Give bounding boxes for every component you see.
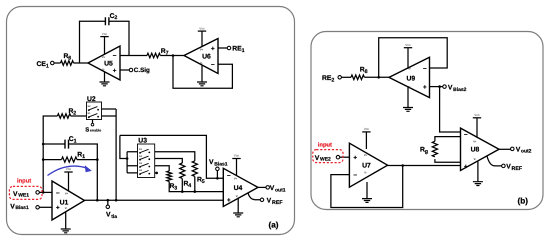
wire U9 plus to VBias2 terminal [430, 86, 443, 88]
svg-text:V+: V+ [234, 178, 238, 181]
svg-text:+: + [227, 197, 231, 204]
U9 ground [407, 87, 409, 108]
analog switch U3 [138, 144, 155, 178]
svg-text:U6: U6 [202, 54, 211, 61]
analog switch U2 [87, 102, 102, 120]
wire C2 right leg down to summing node [109, 21, 129, 55]
svg-text:V: V [267, 198, 272, 205]
svg-text:g: g [425, 149, 428, 155]
op-amp U9 (mirrored, output left) [389, 57, 430, 97]
wire summing node into U5 minus input [120, 55, 129, 57]
svg-text:WE1: WE1 [18, 193, 29, 199]
wire VBias2 node down to U8 minus [440, 87, 461, 132]
resistor R1 [62, 157, 77, 162]
resistor Rg [432, 141, 437, 157]
wire summing node to R7 [129, 55, 147, 57]
wire R5 bottom [194, 177, 196, 192]
wire Rg bottom pin [435, 159, 461, 162]
svg-text:enable: enable [90, 129, 101, 133]
wire VBias1 to U1 plus [39, 206, 52, 208]
U6 ground [201, 65, 203, 82]
node RE2 terminal [338, 76, 342, 80]
svg-text:U8: U8 [471, 146, 480, 153]
junction U9 feedback [377, 76, 380, 79]
wire R4 bottom [181, 179, 183, 192]
in-amp U8 [461, 128, 500, 170]
resistor R6 [61, 61, 74, 66]
svg-text:U7: U7 [362, 162, 371, 169]
svg-text:5: 5 [202, 179, 205, 185]
wire C2 left leg [80, 21, 106, 63]
wire U6 plus input to RE1 terminal [218, 47, 227, 49]
node VREF terminal [260, 198, 264, 202]
resistor R2 [57, 114, 70, 119]
U5 Vdd supply [104, 37, 106, 54]
wire VWE2 to U7 plus [340, 156, 350, 158]
wire U8 output [499, 148, 511, 150]
svg-text:+: + [423, 84, 427, 91]
node VREF terminal [502, 164, 506, 168]
svg-text:V+: V+ [102, 56, 106, 59]
svg-text:U4: U4 [234, 185, 243, 192]
wire R1 to right leg [77, 159, 97, 161]
U9 Vdd supply [407, 48, 409, 68]
svg-text:+: + [353, 155, 357, 162]
wire U4 VREF hook [248, 193, 260, 200]
wire CE1 to R6 [54, 62, 61, 64]
svg-text:−: − [423, 65, 427, 72]
svg-text:V+: V+ [65, 193, 69, 196]
svg-text:V-: V- [236, 195, 239, 198]
node VBias1 right terminal [216, 170, 218, 178]
svg-text:U5: U5 [104, 60, 113, 67]
wire U4 output [258, 186, 266, 188]
resistor R8 [351, 75, 364, 80]
svg-text:input: input [17, 178, 31, 185]
U7 ground [366, 182, 368, 199]
svg-text:8: 8 [365, 69, 368, 75]
node Vtia terminal [107, 200, 109, 205]
svg-text:+: + [211, 45, 215, 52]
wire U6 feedback loop [173, 56, 232, 89]
wire R1 branch left [43, 159, 61, 161]
op-amp U5 (mirrored, output left) [88, 46, 120, 80]
svg-text:Bias1: Bias1 [214, 162, 228, 168]
U4 ground [237, 198, 239, 213]
wire VWE1 to U1 minus [39, 191, 52, 193]
wire U3 row4 stub [155, 172, 157, 174]
svg-text:+: + [464, 164, 468, 171]
svg-text:V-: V- [200, 62, 203, 65]
U8 Vdd supply [476, 118, 478, 137]
U5 ground [104, 72, 106, 82]
svg-text:V+: V+ [200, 49, 204, 52]
svg-text:REF: REF [512, 166, 523, 172]
node VWE2 terminal [336, 155, 340, 159]
node VWE1 terminal [36, 191, 40, 195]
U3 switch poles [139, 149, 150, 154]
wire left feedback bus [43, 116, 57, 192]
U2 enable stub [92, 120, 94, 124]
capacitor C2 [105, 17, 109, 25]
panel (a) border [7, 7, 295, 235]
wire U7 output to U8 plus [388, 165, 461, 167]
wire U3 row2 to R4 [155, 159, 183, 164]
svg-text:out2: out2 [521, 148, 532, 154]
svg-text:V+: V+ [473, 141, 477, 144]
resistor R4 [180, 163, 185, 178]
wire U1 output to U4 plus (Vtia line) [85, 199, 224, 201]
svg-text:S: S [85, 126, 89, 133]
wire R7 to U6 output apex [160, 55, 184, 57]
svg-text:−: − [211, 62, 215, 69]
svg-text:U9: U9 [406, 75, 415, 82]
svg-text:C.Sig: C.Sig [134, 67, 150, 74]
wire R3 bottom / common to U4 [169, 181, 223, 191]
node VBias2 terminal [443, 85, 447, 89]
wire U7 feedback loop [331, 166, 403, 208]
U4 Vdd supply [236, 159, 238, 176]
svg-text:V-: V- [102, 69, 105, 72]
svg-text:1: 1 [74, 139, 77, 145]
svg-text:Bias1: Bias1 [15, 205, 29, 211]
svg-text:6: 6 [68, 55, 71, 61]
wire C1 to right leg [69, 144, 98, 200]
svg-text:REF: REF [272, 200, 283, 206]
U7 Vdd supply [365, 132, 367, 149]
wire U3 left bus [126, 152, 128, 173]
wire C1 branch [43, 143, 65, 145]
op-amp U1 [52, 181, 85, 220]
svg-text:U2: U2 [87, 96, 96, 103]
svg-text:V+: V+ [364, 154, 368, 157]
svg-text:−: − [353, 172, 357, 179]
svg-text:-V: -V [408, 86, 411, 89]
svg-text:2: 2 [331, 78, 334, 84]
svg-text:(b): (b) [518, 197, 529, 206]
U1 Vdd supply [68, 172, 70, 190]
wire top bus to VBias1 node [120, 135, 223, 178]
panel (b) border [311, 32, 543, 210]
svg-text:1: 1 [46, 64, 49, 70]
svg-text:U3: U3 [138, 138, 147, 145]
svg-text:Bias2: Bias2 [453, 87, 467, 93]
svg-text:−: − [56, 190, 60, 197]
node Vout2 terminal [511, 147, 515, 151]
wire U5 plus input to C.Sig terminal [120, 69, 129, 71]
capacitor C1 [65, 140, 69, 149]
svg-text:1: 1 [242, 48, 245, 54]
resistor R5 [192, 161, 197, 176]
wire R8 to U9 output apex [364, 76, 389, 78]
svg-text:1: 1 [82, 154, 85, 160]
svg-text:V-: V- [364, 172, 367, 175]
svg-text:4: 4 [188, 183, 191, 189]
node C.Sig terminal [129, 68, 133, 72]
red dashed box input VWE2 [313, 150, 343, 163]
in-amp U4 [223, 168, 258, 206]
U8 ground [477, 161, 479, 182]
svg-text:(a): (a) [269, 221, 279, 230]
junction U7 output [401, 164, 404, 167]
U2 switch poles [88, 107, 99, 112]
node RE1 terminal [227, 46, 231, 50]
node CE1 terminal [51, 61, 55, 65]
svg-text:+: + [113, 67, 117, 74]
U6 Vdd supply [201, 32, 203, 47]
node VBias1 terminal [36, 206, 40, 210]
svg-text:+V: +V [407, 68, 411, 71]
svg-text:2: 2 [114, 15, 117, 21]
svg-text:U1: U1 [60, 199, 69, 206]
svg-text:input: input [318, 141, 332, 148]
wires U2 outputs to vertical [102, 109, 117, 116]
svg-text:−: − [113, 53, 117, 60]
svg-text:3: 3 [174, 186, 177, 192]
junction dots feedback network [42, 143, 45, 146]
wire U3 row3 to R3 [155, 166, 170, 171]
wire Rg top pin [435, 137, 461, 142]
svg-text:−: − [227, 172, 231, 179]
svg-text:V-: V- [474, 158, 477, 161]
svg-text:V-: V- [65, 207, 68, 210]
wire U8 VREF hook [487, 156, 502, 166]
svg-text:2: 2 [73, 110, 76, 116]
svg-text:+: + [56, 205, 60, 212]
wire R6 to U5 output apex [74, 62, 89, 64]
svg-text:−: − [464, 131, 468, 138]
resistor R3 [167, 171, 172, 181]
svg-text:out1: out1 [275, 188, 286, 194]
node Vout1 terminal [266, 186, 270, 190]
blue arrow annotation [48, 165, 92, 175]
wire RE2 to R8 [341, 76, 351, 78]
op-amp U6 (mirrored, output left) [184, 39, 218, 74]
red dashed box input VWE1 [9, 186, 42, 199]
svg-text:tia: tia [111, 214, 117, 220]
junction U6 feedback [172, 54, 175, 57]
resistor R7 [147, 53, 160, 58]
svg-text:7: 7 [166, 50, 169, 56]
svg-text:WE2: WE2 [320, 157, 331, 163]
U1 ground [65, 212, 67, 229]
wire U3 common feed [120, 135, 127, 158]
wire U9 feedback loop [379, 38, 448, 78]
wire U2 vertical to output node [115, 109, 117, 200]
wires bus to U3 box [127, 152, 137, 173]
op-amp U7 [349, 143, 387, 187]
wire U3 row1 to R5 [155, 152, 195, 161]
wire R2 to U2 box [71, 115, 87, 117]
